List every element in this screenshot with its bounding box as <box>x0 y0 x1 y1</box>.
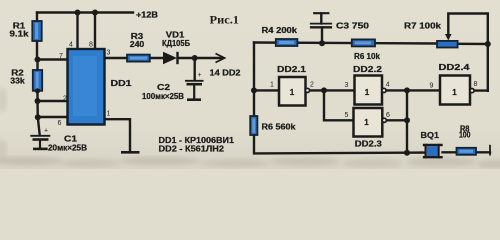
wire R2 bottom <box>36 91 38 102</box>
label C2 100mk x25V <box>142 83 184 101</box>
svg-text:20мк×25В: 20мк×25В <box>48 144 87 153</box>
svg-text:DD2.2: DD2.2 <box>353 65 383 74</box>
wire R7 wiper loop <box>448 14 488 45</box>
svg-text:DD2.1: DD2.1 <box>277 65 307 74</box>
wire pin3 <box>105 57 128 59</box>
svg-text:3: 3 <box>107 50 111 57</box>
wire DD2.1 input <box>254 89 279 91</box>
svg-text:DD1: DD1 <box>111 79 133 88</box>
node dot top rail pin8 <box>92 10 98 16</box>
wire output arrow <box>195 57 223 59</box>
label VD1 KD105B <box>162 31 190 49</box>
node dot top rail pin4 <box>75 10 81 16</box>
resistor R3 <box>127 55 150 62</box>
wire top rail +12V <box>37 11 133 13</box>
svg-text:C1: C1 <box>64 135 78 144</box>
svg-text:R6 10k: R6 10k <box>354 52 381 61</box>
wire pin7 <box>38 58 68 60</box>
svg-text:14 DD2: 14 DD2 <box>210 69 242 78</box>
wire node to C1 <box>38 117 40 135</box>
resistor R6 560k <box>250 116 257 135</box>
node dot DD2.2 output <box>404 87 410 93</box>
label R3 240 <box>130 32 145 49</box>
wire pin2 <box>38 100 68 102</box>
crystal BQ1 <box>419 144 443 159</box>
terminal bar after R8 <box>489 145 491 156</box>
svg-text:C2: C2 <box>157 83 171 92</box>
svg-text:4: 4 <box>386 81 390 88</box>
wire top run <box>254 43 437 44</box>
svg-text:C3 750: C3 750 <box>336 22 370 31</box>
node dot VD1 out <box>192 55 198 61</box>
capacitor C3 <box>310 13 332 27</box>
svg-text:4: 4 <box>69 42 73 49</box>
wire BQ1 to R8 <box>443 151 457 153</box>
svg-text:240: 240 <box>130 40 145 49</box>
wire DD2.2 output <box>386 89 440 91</box>
wire R8 to terminal <box>476 151 490 153</box>
wire right rail <box>487 44 489 91</box>
svg-text:R6 560k: R6 560k <box>262 123 297 132</box>
inverter DD2.4 <box>440 76 474 105</box>
label R2 33k <box>10 69 25 86</box>
node dot C3 <box>319 40 325 46</box>
node dot DD2.1 input <box>251 87 257 93</box>
svg-text:DD2.3: DD2.3 <box>355 140 383 149</box>
node dot DD2.1 output <box>321 87 327 93</box>
svg-text:2: 2 <box>310 82 314 89</box>
svg-text:+: + <box>198 72 202 79</box>
svg-text:8: 8 <box>89 42 93 49</box>
wire R3 to VD1 <box>150 57 164 59</box>
node dot pin2 <box>35 98 41 104</box>
svg-text:1: 1 <box>364 118 369 127</box>
svg-text:8: 8 <box>474 81 478 88</box>
svg-text:BQ1: BQ1 <box>421 131 440 140</box>
resistor R2 <box>33 70 42 91</box>
svg-text:33k: 33k <box>10 77 25 86</box>
svg-text:1: 1 <box>452 88 457 97</box>
inverter DD2.2 <box>355 76 387 105</box>
wire R7 to right rail <box>458 43 488 46</box>
svg-text:5: 5 <box>345 112 349 119</box>
wire link down to DD2.3 input <box>324 90 354 120</box>
wire left rail lower <box>254 135 424 153</box>
svg-text:9: 9 <box>430 82 434 89</box>
inverter DD2.3 <box>354 108 387 137</box>
node dot R1 bottom <box>35 57 41 63</box>
wire R1 top <box>36 13 38 23</box>
svg-text:КД105Б: КД105Б <box>162 39 190 48</box>
wire pin4 drop <box>76 13 78 50</box>
diode VD1 <box>163 52 178 64</box>
capacitor C2 <box>185 72 204 100</box>
wire left rail <box>253 43 255 117</box>
wire R1 bottom to node <box>36 41 38 60</box>
wire C3 top stub <box>320 13 322 23</box>
arrowhead 14 DD2 <box>216 54 225 63</box>
svg-text:100мк×25В: 100мк×25В <box>142 92 184 101</box>
wire VD1 to node <box>178 57 195 59</box>
svg-text:R4 200k: R4 200k <box>262 26 298 35</box>
label R8 100 <box>459 124 471 139</box>
svg-text:1: 1 <box>290 88 295 97</box>
svg-text:6: 6 <box>386 112 390 119</box>
svg-text:100: 100 <box>459 130 471 139</box>
svg-text:1: 1 <box>270 82 274 89</box>
node dot DD2.3 output <box>404 117 410 123</box>
svg-text:1: 1 <box>107 111 111 118</box>
wire DD2.1 output <box>310 89 355 91</box>
svg-text:6: 6 <box>58 120 62 127</box>
resistor R1 <box>32 21 41 41</box>
wire DD2.4 output <box>474 89 488 91</box>
wire C2 stem <box>193 58 195 80</box>
inverter DD2.1 <box>279 77 310 106</box>
trimmer R7 <box>437 34 458 48</box>
label R1 9.1k <box>10 22 30 39</box>
svg-text:R7 100k: R7 100k <box>404 22 442 31</box>
resistor R5 (marked R6 10k) <box>352 39 375 46</box>
wire pin6 <box>38 116 68 118</box>
node dot bottom rail <box>404 150 410 156</box>
resistor R8 <box>457 148 477 155</box>
node dot right rail top <box>485 41 491 47</box>
svg-text:+: + <box>44 128 48 135</box>
ground bar pin1 <box>121 151 140 154</box>
svg-text:3: 3 <box>345 82 349 89</box>
svg-text:DD2 - К561ЛН2: DD2 - К561ЛН2 <box>159 145 225 154</box>
svg-text:7: 7 <box>59 53 63 60</box>
node dot pin6 <box>35 114 41 120</box>
resistor R4 <box>276 39 298 46</box>
node dot R2 bottom <box>35 88 40 93</box>
label C1 20mk x25V <box>48 135 87 153</box>
svg-text:1: 1 <box>365 88 370 97</box>
wire link outputs down <box>406 90 408 152</box>
svg-text:Рис.1: Рис.1 <box>210 13 240 27</box>
wire pin1 to ground <box>105 119 131 151</box>
wire pin8 drop <box>94 13 96 50</box>
wire C3 stem <box>321 28 323 44</box>
svg-text:DD2.4: DD2.4 <box>439 63 471 72</box>
svg-text:9.1k: 9.1k <box>10 30 30 39</box>
IC DD1 <box>68 49 105 125</box>
wire R2 top <box>36 60 38 71</box>
wire DD2.3 output <box>386 119 407 121</box>
capacitor C1 <box>30 128 50 149</box>
svg-text:+12В: +12В <box>136 11 158 20</box>
wire rail to pin6 node <box>36 101 39 117</box>
